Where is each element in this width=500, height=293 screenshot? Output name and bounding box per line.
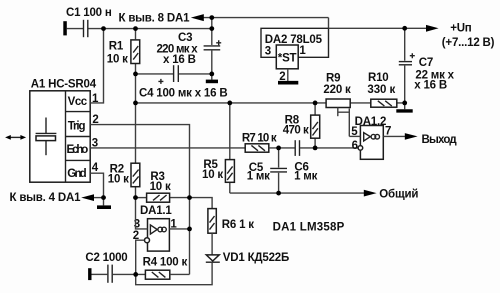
resistor R1 [131, 40, 140, 64]
svg-text:A1 HC-SR04: A1 HC-SR04 [31, 78, 97, 90]
svg-text:6: 6 [352, 140, 358, 152]
wire R3 line [136, 197, 190, 199]
svg-text:Vcc: Vcc [68, 96, 88, 108]
wire Obshchiy (common) line [230, 192, 364, 194]
svg-text:C4 100 мк x 16 В: C4 100 мк x 16 В [139, 87, 227, 99]
ground under C3/C4 node [206, 74, 218, 82]
wire R4 right to pin1 column [170, 273, 190, 275]
wire R6 branch [190, 198, 213, 209]
svg-text:Gnd: Gnd [67, 168, 86, 180]
arrow to pin 8 DA1 [191, 14, 204, 21]
wire node A to C4 and ground node [136, 73, 212, 75]
wire VD1 cathode return to C2 node [136, 262, 212, 285]
resistor R4 [145, 270, 169, 279]
svg-text:*ST: *ST [278, 53, 297, 65]
node upper line / C3 column [209, 15, 214, 20]
arrow +Un [426, 25, 439, 32]
voltage regulator DA2 78L05 [261, 28, 329, 69]
node pin4 / ground [101, 195, 106, 200]
wire R5 column [229, 103, 231, 193]
wire C3 column [211, 29, 213, 74]
node R5 top [227, 101, 232, 106]
node C2/R4/pin2 [133, 272, 138, 277]
svg-text:R1: R1 [109, 41, 124, 53]
node R2/R3/pin3 [133, 195, 138, 200]
wire +Un line [329, 27, 428, 29]
node A R1 bottom [133, 72, 138, 77]
wire C5 column [278, 148, 280, 193]
svg-text:3: 3 [265, 46, 271, 58]
capacitor C1 [84, 20, 88, 37]
capacitor C3 [204, 40, 222, 50]
svg-text:4: 4 [92, 162, 99, 174]
svg-text:(+7...12 В): (+7...12 В) [442, 37, 495, 49]
svg-text:R10: R10 [368, 72, 389, 84]
resistor R9 (trimmer) [326, 99, 350, 108]
svg-text:К выв. 4 DA1: К выв. 4 DA1 [10, 192, 82, 204]
resistor R3 [147, 193, 170, 202]
capacitor C4 [158, 65, 178, 84]
wire R1 column / node A [135, 29, 137, 103]
svg-text:DA1.1: DA1.1 [140, 205, 172, 217]
svg-text:C1 100 н: C1 100 н [66, 7, 112, 19]
node R8 top [313, 101, 318, 106]
svg-text:C3: C3 [178, 32, 192, 44]
svg-text:VD1 КД522Б: VD1 КД522Б [223, 252, 289, 264]
sensor module A1 HC-SR04 [30, 91, 90, 182]
node C1/pin1 rail [101, 26, 106, 31]
svg-text:220 к: 220 к [323, 84, 351, 96]
svg-text:DA1 LM358P: DA1 LM358P [273, 221, 345, 233]
node C4 ground [209, 72, 214, 77]
ground under DA2 [278, 81, 298, 85]
wire Gnd pin4 down [90, 173, 103, 197]
svg-text:R6 1 к: R6 1 к [222, 219, 254, 231]
svg-text:10 к: 10 к [150, 181, 171, 193]
svg-text:R7 10 к: R7 10 к [242, 132, 277, 144]
svg-text:C2 1000: C2 1000 [85, 252, 127, 264]
wire R7 right to C6 [269, 147, 295, 149]
svg-text:10 к: 10 к [108, 174, 129, 186]
wire Trig pin2 line [90, 125, 189, 275]
resistor R6 [208, 209, 216, 234]
node C5 bottom / common [276, 191, 281, 196]
wire Vcc pin1 up to +5V rail [90, 29, 103, 103]
op-amp DA1.1 [145, 219, 170, 251]
svg-text:1 мк: 1 мк [247, 170, 270, 182]
wire Echo pin3 line to R7 [90, 147, 245, 149]
wire R6 to VD1 [211, 233, 213, 255]
capacitor C5 [270, 168, 287, 172]
terminal X2 (C2 input) [88, 268, 91, 280]
svg-text:Echo: Echo [67, 144, 89, 156]
ground under C7/R10 node [396, 103, 412, 111]
node R1 top rail [133, 26, 138, 31]
svg-text:+Uп: +Uп [450, 23, 472, 35]
wire DA2 pin2 to ground [287, 69, 289, 81]
node R3/R6/Trig [187, 195, 192, 200]
arrow Obshchiy [364, 190, 377, 197]
node +Un / C7 [402, 26, 407, 31]
wire arrow to pin4 node [94, 197, 104, 199]
node R1/Vcc line [133, 101, 138, 106]
capacitor C2 [92, 265, 146, 283]
svg-text:7: 7 [385, 125, 391, 137]
capacitor C6 [295, 140, 299, 156]
wire DA1.1 pin2 [136, 240, 145, 274]
resistor R8 [311, 115, 320, 138]
wire C6 right to DA1.2 pin6 [300, 147, 358, 149]
svg-text:C7: C7 [419, 57, 433, 69]
trimmer tap of R9 [338, 108, 350, 137]
node pin1 DA1.1 [187, 227, 192, 232]
wire +5V rail from C1 to C3 column [67, 28, 212, 30]
node C7 bottom / R10 / ground [402, 101, 407, 106]
wire R2 column [135, 103, 137, 198]
wire C7 column [404, 28, 406, 103]
svg-text:10 к: 10 к [107, 53, 128, 65]
svg-text:Trig: Trig [68, 120, 86, 132]
node R8 bottom / C6 [313, 146, 318, 151]
arrow Vyhod [405, 133, 418, 140]
wire DA1.1 pin3 [136, 198, 148, 229]
svg-text:330 к: 330 к [367, 84, 395, 96]
svg-text:х 16 В: х 16 В [414, 79, 447, 91]
resistor R2 [131, 163, 140, 187]
wire DA1.2 pin5 [349, 135, 360, 137]
ultrasonic transducer symbol inside A1 [36, 118, 57, 156]
resistor R10 [371, 99, 397, 107]
resistor R5 [225, 160, 234, 183]
acoustic wave double arrow [5, 135, 26, 140]
svg-text:1 мк: 1 мк [294, 170, 317, 182]
svg-text:470 к: 470 к [283, 124, 309, 136]
node rail / C3 top [209, 26, 214, 31]
svg-text:R9: R9 [326, 72, 340, 84]
svg-text:1: 1 [299, 45, 306, 57]
svg-text:К выв. 8 DA1: К выв. 8 DA1 [119, 12, 191, 24]
wire DA1.1 pin1 [169, 228, 189, 230]
wire Vcc distribution line y=103 [136, 102, 405, 104]
resistor R7 [245, 144, 269, 152]
wire R8 column [314, 103, 316, 148]
terminal X1 (input to C1) [63, 21, 67, 35]
svg-text:10 к: 10 к [202, 169, 223, 181]
arrow to pin 4 DA1 [81, 194, 94, 201]
capacitor C7 [399, 53, 415, 65]
svg-text:Выход: Выход [422, 134, 458, 146]
svg-text:DA2 78L05: DA2 78L05 [265, 34, 323, 46]
node R7/C6/C5 [276, 146, 281, 151]
svg-text:DA1.2: DA1.2 [355, 116, 387, 128]
diode VD1 [206, 255, 220, 262]
svg-text:R4 100 к: R4 100 к [143, 256, 188, 268]
op-amp DA1.2 [358, 126, 383, 160]
wire DA1.2 pin7 to output arrow [383, 135, 405, 137]
svg-text:Общий: Общий [379, 188, 418, 200]
ground under pin4 node [97, 198, 111, 208]
wire pin8-DA1 feed line (upper) from arrow to DA2 right edge [203, 18, 329, 29]
svg-text:х 16 В: х 16 В [163, 54, 196, 66]
